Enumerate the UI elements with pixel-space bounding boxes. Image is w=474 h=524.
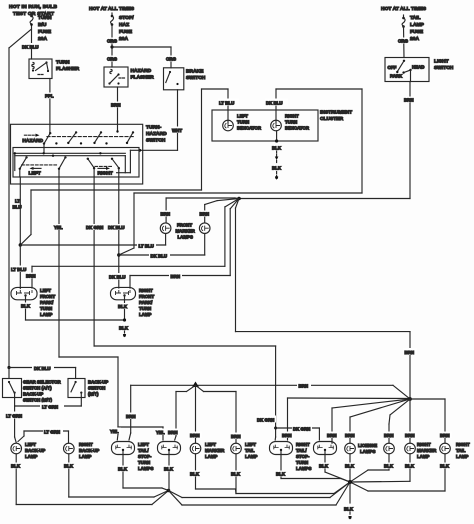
wire YEL to tail stop ovals xyxy=(117,427,163,440)
fuse F2 STOP/HAZ FUSE 20A xyxy=(111,13,114,67)
svg-text:OFF: OFF xyxy=(388,65,397,70)
label BRN mid drop xyxy=(403,348,417,355)
svg-text:BLK: BLK xyxy=(440,464,450,469)
svg-text:BLK: BLK xyxy=(319,464,329,469)
fuse F3 TAIL LAMP FUSE 20A xyxy=(402,15,405,58)
lamp oval LEFT TAIL/STOP-TURN 2 xyxy=(158,442,181,455)
switch S3 TURN-HAZARD SWITCH outer box xyxy=(11,124,143,184)
switch S5 BACK-UP SWITCH MT xyxy=(68,379,85,398)
svg-text:LT GRN: LT GRN xyxy=(6,414,22,419)
node ORG junction xyxy=(110,45,171,67)
svg-text:BRN: BRN xyxy=(299,384,309,389)
svg-text:BLU: BLU xyxy=(13,205,22,210)
svg-text:STOP-: STOP- xyxy=(138,454,152,459)
svg-text:LIGHT: LIGHT xyxy=(434,59,449,65)
svg-text:BACK-UP: BACK-UP xyxy=(79,448,99,453)
svg-text:HOT AT ALL TIMES: HOT AT ALL TIMES xyxy=(381,6,427,12)
svg-text:BRN: BRN xyxy=(282,433,292,438)
label HAZARD xyxy=(22,138,43,144)
svg-text:BLK: BLK xyxy=(119,326,129,331)
svg-text:SWITCH (M/T): SWITCH (M/T) xyxy=(23,398,53,403)
label HOT AT ALL TIMES right xyxy=(381,6,427,12)
svg-text:LEFT: LEFT xyxy=(29,171,41,177)
svg-text:FLASHER: FLASHER xyxy=(56,66,80,72)
svg-text:B/U: B/U xyxy=(38,22,47,28)
wire BLK left marker tail grounds xyxy=(196,454,351,494)
label LT BLU front line xyxy=(137,242,156,249)
ground front lamps xyxy=(123,331,126,337)
svg-text:ORG: ORG xyxy=(107,57,118,62)
wire LT GRN down to backup lamps xyxy=(15,406,17,443)
label GEAR SELECTOR SWITCH xyxy=(23,380,62,403)
wire WHT brake switch to turn-hazard switch xyxy=(138,90,177,152)
svg-text:BRN: BRN xyxy=(168,430,178,435)
svg-text:SWITCH: SWITCH xyxy=(146,138,166,144)
svg-text:YEL: YEL xyxy=(54,225,63,230)
svg-text:DK GRN: DK GRN xyxy=(293,427,310,432)
svg-text:20A: 20A xyxy=(119,36,128,42)
lamp oval RIGHT TAIL/STOP-TURN 1 xyxy=(270,442,293,455)
lamp oval LEFT TAIL/STOP-TURN 1 xyxy=(112,442,135,455)
svg-text:TURN: TURN xyxy=(139,306,151,311)
wire DK GRN split to oval4 xyxy=(274,427,319,441)
svg-text:INDICATOR: INDICATOR xyxy=(237,126,262,131)
switch S3 RIGHT dashed rail xyxy=(95,165,112,167)
node DK BLU junction front right xyxy=(117,193,134,257)
svg-text:BACK-UP: BACK-UP xyxy=(23,392,43,397)
svg-text:TURN-: TURN- xyxy=(146,125,162,131)
wire BLK right marker ground xyxy=(350,454,410,482)
wire BRN to front marker right xyxy=(205,199,239,223)
label HOT AT ALL TIMES center xyxy=(89,6,135,12)
svg-text:BRN: BRN xyxy=(405,433,415,438)
wire BLK left bus to main ground xyxy=(169,482,351,498)
svg-text:LAMPS: LAMPS xyxy=(296,466,311,471)
svg-text:BLK: BLK xyxy=(231,472,241,477)
svg-text:HAZARD: HAZARD xyxy=(146,131,167,137)
svg-text:BLK: BLK xyxy=(344,507,354,512)
svg-text:TURN: TURN xyxy=(285,120,297,125)
svg-text:20A: 20A xyxy=(410,36,419,42)
label INSTRUMENT CLUSTER xyxy=(320,110,352,123)
label RIGHT xyxy=(98,171,113,177)
node LT BLU junction front left xyxy=(19,190,31,247)
label LEFT BACK-UP LAMP xyxy=(25,442,45,459)
label BACK-UP SWITCH MT xyxy=(88,380,108,397)
svg-text:LT BLU: LT BLU xyxy=(219,101,234,106)
wire BRN branch to right front park lamp xyxy=(130,199,239,289)
svg-text:FRONT: FRONT xyxy=(40,294,55,299)
label LEFT xyxy=(29,171,41,177)
label BRN license1 xyxy=(344,432,357,439)
lamp LICENSE 2 xyxy=(384,443,395,454)
svg-text:BRN: BRN xyxy=(190,433,200,438)
wire BRN drop to oval1 xyxy=(129,385,131,440)
lamp RIGHT MARKER xyxy=(405,443,416,454)
wire BRN drop to left marker xyxy=(195,385,197,443)
wire DK BLU fuse feed left drop xyxy=(9,24,32,368)
svg-text:FLASHER: FLASHER xyxy=(131,75,155,81)
label RIGHT TAIL/STOP-TURN LAMPS xyxy=(296,442,311,471)
label RIGHT BACK-UP LAMP xyxy=(79,442,99,459)
svg-text:RIGHT: RIGHT xyxy=(417,442,431,447)
svg-text:LAMPS: LAMPS xyxy=(360,449,375,454)
relay K2 HAZARD FLASHER xyxy=(104,67,128,87)
label LIGHT SWITCH xyxy=(434,59,454,72)
svg-text:MARKER: MARKER xyxy=(205,448,225,453)
label BRN right marker xyxy=(404,432,417,439)
svg-text:LT GRN: LT GRN xyxy=(42,405,58,410)
svg-text:LAMP: LAMP xyxy=(25,454,38,459)
ground cluster xyxy=(275,172,278,180)
svg-text:LAMPS: LAMPS xyxy=(178,235,193,240)
svg-text:MARKER: MARKER xyxy=(176,229,196,234)
svg-text:DK GRN: DK GRN xyxy=(257,418,274,423)
label BRN front marker right xyxy=(198,211,211,217)
wire BRN light switch down to BRN junction xyxy=(239,82,410,199)
switch S3 hazard row contact dots xyxy=(55,130,119,144)
label LT GRN wire xyxy=(5,412,25,419)
svg-text:DK BLU: DK BLU xyxy=(266,101,283,106)
svg-text:BRAKE: BRAKE xyxy=(186,69,204,75)
svg-text:SWITCH: SWITCH xyxy=(186,75,206,81)
svg-text:LICENSE: LICENSE xyxy=(358,443,377,448)
switch S3 RIGHT arrow xyxy=(98,167,110,170)
label DK BLU right lamp xyxy=(108,273,127,280)
svg-text:LEFT: LEFT xyxy=(237,114,248,119)
label BLK main ground xyxy=(343,505,356,512)
svg-text:(M/T): (M/T) xyxy=(88,392,99,397)
node BLK main ground xyxy=(348,480,352,503)
wire BLK oval1 ground xyxy=(123,455,169,491)
label BLK bottom row xyxy=(10,463,451,477)
svg-text:YEL: YEL xyxy=(110,429,119,434)
switch S3 turn blade DK BLU xyxy=(111,158,120,177)
wire BLK left bus 2 to main ground xyxy=(169,482,351,505)
svg-text:TURN: TURN xyxy=(138,460,150,465)
label ORG 3 xyxy=(165,56,177,62)
svg-text:RIGHT: RIGHT xyxy=(285,114,299,119)
svg-text:PARK/: PARK/ xyxy=(139,300,153,305)
label LEFT TAIL LAMP xyxy=(245,442,258,459)
svg-text:TURN: TURN xyxy=(40,306,52,311)
switch S3 hazard blade 3 xyxy=(93,131,102,144)
svg-text:BRN: BRN xyxy=(26,274,36,279)
svg-text:RIGHT: RIGHT xyxy=(79,442,93,447)
label HOT IN RUN xyxy=(9,4,57,17)
lamp LEFT FRONT PARK/TURN xyxy=(11,287,37,299)
svg-text:LT BLU: LT BLU xyxy=(11,267,26,272)
svg-text:TURN: TURN xyxy=(237,120,249,125)
wire BRN drop license 2 xyxy=(389,399,410,443)
svg-text:TAIL/: TAIL/ xyxy=(138,448,149,453)
lamp LICENSE 1 xyxy=(345,443,356,454)
svg-text:GEAR SELECTOR: GEAR SELECTOR xyxy=(23,380,62,385)
svg-text:LAMP: LAMP xyxy=(417,454,430,459)
svg-text:BRN: BRN xyxy=(405,350,415,355)
label BLK left front xyxy=(20,303,32,309)
svg-text:ORG: ORG xyxy=(166,57,177,62)
wire BRN branch to left front park lamp xyxy=(32,199,239,289)
svg-text:SWITCH: SWITCH xyxy=(88,386,105,391)
svg-text:BLK: BLK xyxy=(164,467,174,472)
wire BRN drop license 1 xyxy=(350,399,410,443)
wire BRN hazard flasher to switch xyxy=(117,87,119,131)
svg-text:BLK: BLK xyxy=(345,464,355,469)
lamp oval RIGHT TAIL/STOP-TURN 2 xyxy=(314,442,337,455)
label DK BLU backup feed xyxy=(32,364,54,371)
svg-text:LEFT: LEFT xyxy=(245,442,256,447)
wire LT BLU line front xyxy=(20,244,165,246)
svg-text:LEFT: LEFT xyxy=(25,442,36,447)
switch S3 LEFT arrow xyxy=(30,167,42,170)
switch S3 hazard blade 2 xyxy=(67,131,77,144)
label BRN front marker left xyxy=(159,211,172,217)
svg-text:BRN: BRN xyxy=(171,274,181,279)
label YEL wire xyxy=(53,224,65,230)
label BRN license2 xyxy=(383,432,396,439)
svg-text:FRONT: FRONT xyxy=(139,294,154,299)
label HAZARD FLASHER xyxy=(131,68,155,81)
wire BLK right tail ground xyxy=(350,454,445,491)
label ORG right xyxy=(397,38,409,44)
svg-text:RIGHT: RIGHT xyxy=(296,442,310,447)
switch S3 WHT internal link xyxy=(117,150,140,172)
svg-text:CLUSTER: CLUSTER xyxy=(320,116,344,122)
svg-text:TAIL: TAIL xyxy=(245,448,255,453)
svg-text:BLK: BLK xyxy=(276,472,286,477)
wire BRN to front marker left xyxy=(166,198,239,223)
svg-text:TAIL: TAIL xyxy=(456,448,466,453)
label LEFT MARKER LAMP xyxy=(205,442,225,459)
svg-text:TAIL/: TAIL/ xyxy=(296,448,307,453)
label ORG 2 xyxy=(106,56,118,62)
node BLK left ground xyxy=(167,455,171,493)
label BRN left tail xyxy=(230,433,243,440)
switch S3 hazard rail dashed xyxy=(47,136,134,138)
wire BLK cluster ground connector xyxy=(275,131,279,164)
switch S3 turn blade YEL xyxy=(58,156,67,177)
label RIGHT FRONT PARK/TURN LAMP xyxy=(139,288,154,317)
label RIGHT TURN INDICATOR xyxy=(285,114,310,131)
svg-text:DK BLU: DK BLU xyxy=(151,254,168,259)
svg-text:LT: LT xyxy=(15,199,20,204)
wire BRN drop to left tail xyxy=(196,385,237,443)
label ORG 1 xyxy=(106,38,118,44)
label BRN oval3 xyxy=(281,432,294,439)
label BRN left marker xyxy=(189,432,202,439)
svg-text:BLK: BLK xyxy=(190,472,200,477)
wire BLK oval4 ground xyxy=(325,455,350,483)
svg-text:SWITCH (A/T): SWITCH (A/T) xyxy=(23,386,52,391)
svg-text:YEL: YEL xyxy=(156,430,165,435)
svg-text:LAMPS: LAMPS xyxy=(138,466,153,471)
svg-text:LAMP: LAMP xyxy=(205,454,218,459)
label BRN right lamp line xyxy=(169,273,182,280)
svg-text:ORG: ORG xyxy=(398,39,409,44)
label LEFT TAIL/STOP-TURN LAMPS xyxy=(138,442,153,471)
svg-text:HAZ: HAZ xyxy=(119,22,129,28)
label LT BLU left lamp xyxy=(10,266,27,273)
label fuse F3 xyxy=(410,15,425,42)
svg-text:PARK: PARK xyxy=(390,74,403,79)
node DK BLU backup feed xyxy=(7,366,10,378)
svg-text:LAMP: LAMP xyxy=(40,312,53,317)
ground main xyxy=(348,512,352,520)
wire BRN junction line to oval3 xyxy=(288,398,411,440)
svg-text:WHT: WHT xyxy=(172,128,182,133)
wire BLK oval3 ground xyxy=(281,455,350,483)
svg-text:20A: 20A xyxy=(38,36,47,42)
label WHT xyxy=(171,127,184,134)
label YEL oval1 xyxy=(109,428,121,435)
wire YEL switch down xyxy=(59,177,118,427)
svg-text:BRN: BRN xyxy=(345,433,355,438)
wire marker right to DK BLU line xyxy=(204,234,206,256)
switch S1 BRAKE SWITCH xyxy=(164,68,184,90)
lamp LEFT MARKER xyxy=(190,443,201,454)
label DK BLU front line xyxy=(149,252,170,259)
svg-text:BACK-UP: BACK-UP xyxy=(88,380,108,385)
wire DK BLU switch down to front lamps xyxy=(118,177,120,288)
lamp RIGHT BACK-UP xyxy=(64,443,75,454)
switch S2 LIGHT SWITCH xyxy=(385,58,429,82)
svg-text:STOP/: STOP/ xyxy=(119,15,134,21)
wire BLK license1 ground xyxy=(349,454,351,482)
svg-text:DK BLU: DK BLU xyxy=(108,225,125,230)
svg-text:LEFT: LEFT xyxy=(40,288,51,293)
relay K1 TURN FLASHER xyxy=(29,59,52,79)
svg-text:BRN: BRN xyxy=(111,103,121,108)
svg-text:BACK-UP: BACK-UP xyxy=(25,448,45,453)
switch S4 GEAR SELECTOR SWITCH xyxy=(3,379,22,398)
lamp LEFT TURN INDICATOR xyxy=(223,120,234,131)
label DK GRN wire xyxy=(85,224,103,230)
node BRN rear junction xyxy=(408,397,412,401)
svg-text:TURN: TURN xyxy=(56,60,70,66)
svg-text:DK BLU: DK BLU xyxy=(34,366,51,371)
wire LT BLU into left front lamp xyxy=(19,245,21,289)
svg-text:ORG: ORG xyxy=(107,39,118,44)
label BLK cluster 1 xyxy=(271,145,283,151)
switch S3 hazard arrow xyxy=(24,134,39,137)
svg-text:MARKER: MARKER xyxy=(417,448,437,453)
svg-text:INSTRUMENT: INSTRUMENT xyxy=(320,110,352,116)
svg-text:BRN: BRN xyxy=(384,433,394,438)
svg-text:LAMP: LAMP xyxy=(79,454,92,459)
wire BRN drop to oval2 xyxy=(175,385,196,440)
switch S3 LEFT dashed rail xyxy=(22,164,57,166)
label BRN hazard xyxy=(110,102,122,108)
svg-text:BRN: BRN xyxy=(440,433,450,438)
label DK BLU top xyxy=(21,43,39,50)
wire BRN drop right tail xyxy=(410,399,445,443)
label TURN FLASHER xyxy=(56,60,80,73)
lamp LEFT BACK-UP xyxy=(11,443,22,454)
svg-text:LAMP: LAMP xyxy=(245,454,258,459)
label DK GRN 1 xyxy=(256,416,276,423)
lamp RIGHT FRONT PARK/TURN xyxy=(111,287,136,299)
svg-text:PARK/: PARK/ xyxy=(40,300,54,305)
svg-text:BRN: BRN xyxy=(200,212,210,217)
label LEFT FRONT PARK/TURN LAMP xyxy=(40,288,55,317)
svg-text:FUSE: FUSE xyxy=(410,29,424,35)
svg-text:HOT IN RUN, BULB: HOT IN RUN, BULB xyxy=(9,4,57,10)
label BLK right front xyxy=(117,303,129,309)
label TURN-HAZARD SWITCH xyxy=(146,125,167,144)
svg-text:BRN: BRN xyxy=(404,98,414,103)
svg-text:LEFT: LEFT xyxy=(205,442,216,447)
label YEL BRN oval2 xyxy=(155,429,180,436)
label BRN right tail xyxy=(439,432,452,439)
wire DK GRN switch down xyxy=(94,177,276,440)
label BRN oval4 xyxy=(326,432,339,439)
switch S3 hazard blade 4 xyxy=(126,131,134,144)
wire BRN drop right marker xyxy=(409,399,411,443)
svg-text:BLK: BLK xyxy=(405,464,415,469)
svg-text:BLK: BLK xyxy=(21,304,31,309)
switch S3 feed rails xyxy=(14,152,126,173)
switch S3 inner box xyxy=(13,148,139,178)
svg-text:BLK: BLK xyxy=(64,464,74,469)
svg-text:DK BLU: DK BLU xyxy=(22,45,39,50)
label LT GRN link xyxy=(40,403,64,410)
svg-text:TURN: TURN xyxy=(296,460,308,465)
wire marker left to LT BLU line xyxy=(165,234,167,246)
label BLK front ground xyxy=(118,325,130,331)
connector BRN splice arrow xyxy=(192,382,199,388)
label LT BLU wire xyxy=(13,199,22,210)
svg-text:LEFT: LEFT xyxy=(138,442,149,447)
label DK BLU cluster xyxy=(265,99,288,106)
svg-text:RIGHT: RIGHT xyxy=(456,442,470,447)
node BRN main junction xyxy=(237,197,241,201)
label LT GRN lamp bus xyxy=(43,428,63,435)
label BRAKE SWITCH xyxy=(186,69,206,82)
label RIGHT TAIL LAMP xyxy=(456,442,470,459)
wire LT BLU loop to cluster xyxy=(31,89,228,190)
wire LT GRN lamp bus xyxy=(18,431,69,443)
svg-text:BLK: BLK xyxy=(118,304,128,309)
svg-text:BLK: BLK xyxy=(272,166,282,171)
svg-text:LAMP: LAMP xyxy=(139,312,152,317)
svg-text:HOT AT ALL TIMES: HOT AT ALL TIMES xyxy=(89,6,135,12)
svg-text:LAMP: LAMP xyxy=(456,454,469,459)
label BRN oval1 xyxy=(125,413,138,420)
svg-text:PPL: PPL xyxy=(45,94,54,99)
svg-text:LT BLU: LT BLU xyxy=(139,244,154,249)
wire BLK license2 ground xyxy=(350,454,389,482)
wire BRN trunk down to rear xyxy=(236,199,411,400)
wire BLK right backup ground xyxy=(69,454,169,497)
switch S3 hazard blade 1 xyxy=(43,132,52,153)
svg-text:STOP-: STOP- xyxy=(296,454,310,459)
lamp FRONT MARKER left xyxy=(160,223,171,234)
wire BRN trunk rear xyxy=(131,385,410,399)
svg-text:BLK: BLK xyxy=(384,464,394,469)
svg-text:BLK: BLK xyxy=(11,464,21,469)
svg-text:BRN: BRN xyxy=(126,414,136,419)
label FRONT MARKER LAMPS xyxy=(176,223,196,240)
label BRN trunk xyxy=(297,382,311,389)
svg-text:FUSE: FUSE xyxy=(38,29,52,35)
lamp RIGHT TAIL xyxy=(440,443,451,454)
label fuse F2 xyxy=(119,15,134,42)
label RIGHT MARKER LAMP xyxy=(417,442,437,459)
svg-text:LT GRN: LT GRN xyxy=(44,430,60,435)
label BRN left lamp xyxy=(25,273,37,279)
svg-text:DK GRN: DK GRN xyxy=(86,225,103,230)
